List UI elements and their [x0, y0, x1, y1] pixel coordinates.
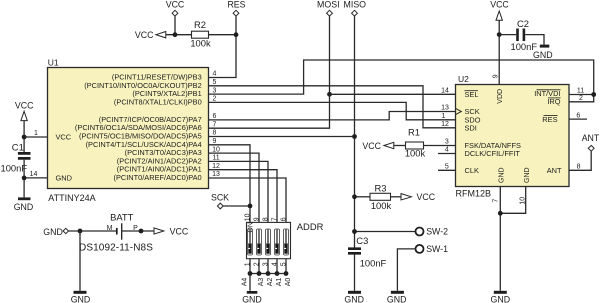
svg-text:4: 4 — [213, 71, 217, 78]
junction VCC/C2 — [497, 32, 502, 37]
wire C2 to GND — [525, 35, 544, 45]
junction battery plus — [139, 229, 144, 234]
DIP top pin numbers 10,9,8,7,6 — [244, 213, 287, 221]
svg-text:MOSI: MOSI — [317, 0, 339, 10]
switch SW-1 — [397, 244, 448, 291]
connector MISO — [344, 0, 367, 16]
IC U2 body — [456, 74, 570, 198]
svg-text:7: 7 — [271, 217, 278, 221]
svg-text:R2: R2 — [194, 19, 206, 30]
svg-text:11: 11 — [577, 88, 584, 95]
wire VCC to R1 — [394, 145, 406, 147]
svg-text:6: 6 — [576, 112, 580, 119]
svg-text:SCK: SCK — [211, 193, 229, 203]
wire U2 pin 5 (CLK) stub — [438, 169, 456, 171]
svg-text:A0: A0 — [285, 278, 292, 287]
svg-text:SDI: SDI — [465, 123, 477, 132]
svg-text:GND: GND — [71, 295, 91, 303]
svg-text:8: 8 — [213, 130, 217, 137]
wire VCC to C1 — [23, 121, 25, 153]
wire ANT to U2 pin 8 — [569, 151, 591, 170]
battery BATT — [79, 211, 153, 253]
svg-text:GND: GND — [242, 295, 262, 303]
junction battery minus — [78, 229, 83, 234]
wire GND diamond to battery — [69, 230, 117, 232]
junction pin14/C1 — [22, 176, 27, 181]
svg-text:100nF: 100nF — [1, 162, 28, 173]
svg-text:VCC: VCC — [56, 133, 72, 142]
svg-text:12: 12 — [212, 163, 220, 170]
svg-text:R1: R1 — [408, 126, 420, 137]
svg-text:(PCINT8/XTAL1/CLKI)PB0: (PCINT8/XTAL1/CLKI)PB0 — [114, 97, 202, 106]
svg-text:ANT: ANT — [547, 166, 562, 175]
ground (C3) — [344, 291, 364, 303]
svg-text:M: M — [107, 225, 113, 232]
wire PA7 to U2 pin 13 (SCK) — [209, 112, 456, 120]
svg-text:SW-2: SW-2 — [426, 227, 448, 237]
junction bus col5 — [284, 271, 289, 276]
svg-text:A1: A1 — [276, 278, 283, 287]
wire battery minus to ground — [79, 231, 81, 291]
U2 rotated VDD / GND labels — [497, 89, 531, 183]
svg-text:GND: GND — [14, 202, 34, 212]
junction U2 ground — [498, 211, 503, 216]
svg-text:5: 5 — [213, 79, 217, 86]
svg-text:R3: R3 — [375, 182, 387, 193]
wire PB2 to U2 pin 12 (SDI) — [209, 86, 456, 128]
svg-text:3: 3 — [445, 139, 449, 146]
junction pin1/VCC — [22, 135, 27, 140]
wire SCK diamond to column — [223, 205, 250, 207]
junction RES/R2 — [234, 32, 239, 37]
svg-text:C2: C2 — [517, 18, 529, 29]
svg-text:GND: GND — [387, 295, 407, 303]
svg-text:U1: U1 — [48, 57, 59, 67]
svg-text:U2: U2 — [458, 74, 469, 84]
wire ADDR bottom bus — [250, 259, 286, 274]
svg-text:VCC: VCC — [490, 0, 509, 10]
wire U2 pin 4 (DCLK) stub — [438, 153, 456, 155]
U1 pin numbers — [30, 71, 220, 179]
svg-text:ATTINY24A: ATTINY24A — [48, 193, 95, 203]
resistor R2 — [190, 19, 211, 48]
wire bus to ground — [249, 274, 251, 291]
svg-text:RFM12B: RFM12B — [456, 189, 492, 199]
ground (C2) — [533, 45, 553, 60]
wire C3 to GND — [354, 255, 356, 291]
wire MISO vertical to R3/SW-2/C3 — [354, 16, 356, 248]
DIP switch slider 3 — [266, 229, 271, 255]
svg-text:(PCINT0/AREF/ADC0)PA0: (PCINT0/AREF/ADC0)PA0 — [114, 173, 202, 182]
wire U1 pin 14 — [24, 177, 47, 179]
svg-text:GND: GND — [43, 227, 63, 237]
power flag VCC (left of R2) — [135, 30, 166, 40]
connector SCK — [211, 193, 229, 209]
wire PA0 to ADDR col 5 — [209, 178, 287, 222]
wire PB1 to U2 pins 11/2 — [209, 60, 594, 102]
svg-text:GND: GND — [344, 295, 364, 303]
wire PA2 to ADDR col 3 — [209, 161, 269, 222]
svg-text:RES: RES — [542, 115, 557, 124]
junction VCC/R2 rail — [173, 32, 178, 37]
svg-text:7: 7 — [492, 199, 499, 203]
U1 right pin name labels — [56, 73, 202, 183]
svg-text:7: 7 — [213, 121, 217, 128]
svg-text:VCC: VCC — [170, 227, 189, 237]
svg-text:100k: 100k — [371, 200, 392, 211]
wire VCC diamond drop — [174, 16, 176, 35]
wire battery plus to VCC flag — [122, 230, 154, 232]
power flag VCC (R1) — [362, 141, 393, 151]
ground (C1) — [14, 197, 34, 212]
svg-text:MISO: MISO — [344, 0, 367, 10]
svg-text:DS1092-11-N8S: DS1092-11-N8S — [79, 243, 153, 254]
junction bus col1 — [248, 271, 253, 276]
wire VCC rail to R2 — [166, 34, 192, 36]
svg-text:13: 13 — [441, 105, 449, 112]
ground (battery) — [71, 291, 91, 303]
DIP bottom pin numbers 1-5 — [244, 262, 287, 266]
U2 clock mark pin 13 — [456, 108, 462, 114]
svg-text:2: 2 — [213, 96, 217, 103]
U2 pin numbers — [441, 74, 584, 204]
svg-text:6: 6 — [280, 217, 287, 221]
power flag VCC (above C1) — [15, 100, 34, 120]
wire SEL line to U2 pin 14 — [330, 93, 456, 95]
wire R3 to VCC flag — [391, 196, 402, 198]
svg-text:14: 14 — [441, 88, 449, 95]
svg-text:6: 6 — [213, 113, 217, 120]
connector MOSI — [317, 0, 339, 16]
switch SW-2 — [355, 227, 449, 237]
DIP switch slider 4 — [275, 229, 280, 255]
power flag VCC (battery) — [154, 227, 189, 237]
svg-text:VCC: VCC — [417, 192, 436, 202]
svg-text:GND: GND — [533, 50, 553, 60]
svg-text:ANT: ANT — [582, 133, 600, 143]
svg-text:ON: ON — [248, 222, 255, 233]
svg-text:C1: C1 — [12, 141, 24, 152]
svg-text:ADDR: ADDR — [297, 221, 324, 232]
wire C1 to GND — [23, 160, 25, 198]
svg-text:C3: C3 — [356, 235, 368, 246]
capacitor C3 — [348, 235, 387, 268]
svg-text:8: 8 — [262, 217, 269, 221]
svg-text:RES: RES — [227, 0, 245, 10]
wire MOSI to U1 pin 7 (PA6) — [209, 16, 330, 128]
svg-text:GND: GND — [491, 295, 511, 303]
capacitor C2 — [511, 18, 538, 52]
svg-text:VCC: VCC — [166, 0, 185, 10]
wire VCC to U2 pin 9 (VDD) — [498, 20, 500, 84]
wire U1 pin 8 (PA5) branch — [209, 136, 355, 138]
svg-text:9: 9 — [213, 138, 217, 145]
svg-text:14: 14 — [30, 171, 38, 178]
svg-text:5: 5 — [445, 164, 449, 171]
svg-text:11: 11 — [212, 155, 219, 162]
junction SW-2 — [352, 229, 357, 234]
svg-text:1: 1 — [34, 130, 38, 137]
svg-text:GND: GND — [524, 167, 531, 183]
svg-text:VCC: VCC — [15, 100, 34, 110]
connector ANT — [582, 133, 600, 151]
junction MISO/PA5 — [352, 134, 357, 139]
wire PB0 to U2 pin 1 (SDO) — [209, 102, 456, 119]
wire PA1 to ADDR col 4 — [209, 170, 278, 223]
resistor R3 — [370, 182, 391, 211]
svg-text:10: 10 — [244, 213, 251, 221]
wire U1 pin 1 — [24, 136, 47, 138]
ground (SW-1) — [387, 291, 407, 303]
power flag VCC (top left) — [166, 0, 185, 16]
power flag VCC (R3) — [401, 192, 436, 202]
U2 left pin labels — [465, 90, 521, 175]
junction bus col3 — [266, 271, 271, 276]
wire R2 to RES net — [209, 34, 237, 36]
wire U2 pin 7 GND — [499, 187, 501, 291]
svg-text:4: 4 — [445, 147, 449, 154]
junction R3 — [352, 194, 357, 199]
capacitor C1 — [1, 141, 31, 173]
svg-text:SEL: SEL — [465, 90, 479, 99]
IC U1 body — [48, 57, 209, 203]
svg-text:A3: A3 — [258, 278, 265, 287]
wire MISO net to R3 — [355, 196, 371, 198]
power flag VCC (top right) — [490, 0, 509, 20]
wire RES to U1 pin 4 — [209, 16, 237, 77]
svg-text:A2: A2 — [267, 278, 274, 287]
junction INT/IRQ — [591, 92, 596, 97]
svg-text:GND: GND — [499, 167, 506, 183]
DIP switch slider 1 — [248, 229, 253, 255]
svg-text:VCC: VCC — [135, 30, 154, 40]
DIP switch ADDR body — [247, 221, 324, 258]
svg-text:10: 10 — [212, 146, 220, 153]
resistor R1 — [405, 126, 426, 158]
U2 right pin labels — [534, 89, 562, 175]
svg-text:100nF: 100nF — [360, 257, 387, 268]
svg-text:13: 13 — [212, 171, 220, 178]
node labels A4-A0 — [241, 278, 292, 287]
ground (U2) — [491, 291, 511, 303]
svg-text:100k: 100k — [405, 148, 426, 159]
junction SCK — [248, 204, 253, 209]
svg-text:GND: GND — [56, 173, 72, 182]
svg-text:A4: A4 — [241, 278, 248, 287]
svg-text:IRQ: IRQ — [547, 97, 560, 106]
svg-text:100k: 100k — [190, 38, 211, 49]
junction bus col4 — [275, 271, 280, 276]
svg-text:DCLK/CFIL/FFIT: DCLK/CFIL/FFIT — [465, 149, 521, 158]
svg-text:12: 12 — [441, 121, 449, 128]
connector RES — [227, 0, 245, 16]
wire VCC to C2 — [499, 34, 516, 36]
DIP switch slider 2 — [257, 229, 262, 255]
svg-text:2: 2 — [579, 95, 583, 102]
svg-text:9: 9 — [253, 217, 260, 221]
junction MOSI/SEL branch — [327, 92, 332, 97]
svg-text:8: 8 — [577, 164, 581, 171]
ground (ADDR) — [242, 291, 262, 303]
connector GND (battery) — [43, 227, 68, 237]
svg-text:VDD: VDD — [497, 89, 504, 104]
svg-text:CLK: CLK — [465, 166, 479, 175]
wire PA3 to ADDR col 2 — [209, 153, 260, 222]
svg-text:1: 1 — [442, 113, 446, 120]
wire U2 pin 10 GND — [500, 187, 525, 214]
wire U2 pin 11 (INT/VDI) stub — [569, 94, 594, 96]
wire R1 to U2 pin 3 (FSK) — [424, 145, 456, 147]
svg-text:BATT: BATT — [110, 211, 134, 222]
DIP switch slider 5 — [284, 229, 289, 255]
wire PA4 to SCK node and ADDR col 1 — [209, 145, 251, 223]
wire U2 pin 6 (RES) stub — [569, 118, 587, 120]
svg-text:3: 3 — [213, 87, 217, 94]
svg-text:SW-1: SW-1 — [426, 244, 448, 254]
svg-text:VCC: VCC — [362, 141, 381, 151]
junction bus col2 — [257, 271, 262, 276]
